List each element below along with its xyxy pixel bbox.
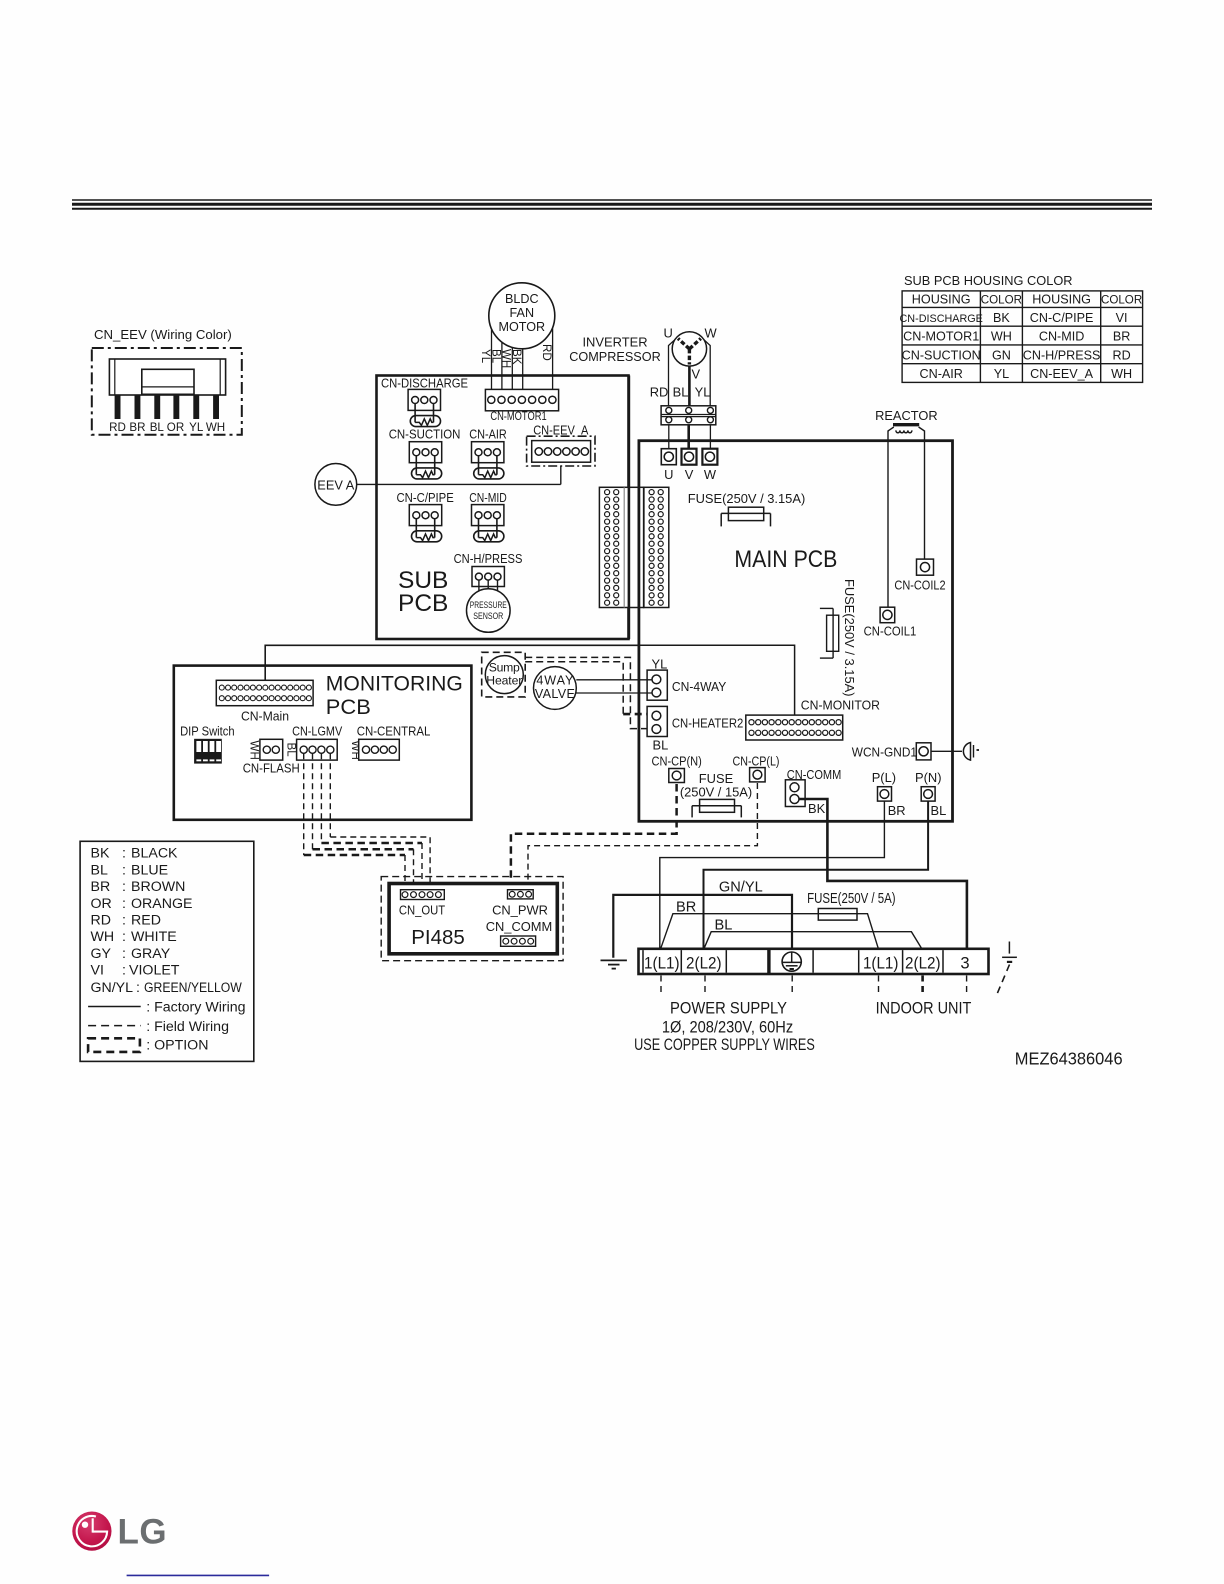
svg-text:VI: VI xyxy=(1116,311,1128,325)
svg-text::: : xyxy=(122,946,126,962)
svg-text:FAN: FAN xyxy=(510,306,535,320)
svg-text:INDOOR UNIT: INDOOR UNIT xyxy=(876,999,972,1018)
svg-text:CN-SUCTION: CN-SUCTION xyxy=(902,348,981,362)
svg-text:CN-DISCHARGE: CN-DISCHARGE xyxy=(381,376,468,391)
svg-text:CN-MONITOR: CN-MONITOR xyxy=(801,698,880,713)
svg-text:CN-H/PRESS: CN-H/PRESS xyxy=(1023,348,1101,362)
svg-text:OR: OR xyxy=(91,896,112,912)
svg-text:CN-HEATER2: CN-HEATER2 xyxy=(672,715,743,730)
svg-text:COMPRESSOR: COMPRESSOR xyxy=(569,349,661,364)
svg-text:W: W xyxy=(705,326,718,341)
svg-text:CN-Main: CN-Main xyxy=(241,709,289,724)
svg-text:BLDC: BLDC xyxy=(505,292,539,306)
svg-text:CN-H/PRESS: CN-H/PRESS xyxy=(454,551,523,566)
svg-text:BL: BL xyxy=(653,738,669,753)
svg-text:FUSE(250V / 3.15A): FUSE(250V / 3.15A) xyxy=(688,491,806,506)
svg-text:CN_OUT: CN_OUT xyxy=(399,903,445,918)
svg-text:1Ø, 208/230V, 60Hz: 1Ø, 208/230V, 60Hz xyxy=(662,1018,793,1037)
svg-text:1(L1): 1(L1) xyxy=(863,953,899,972)
svg-text:FUSE(250V / 5A): FUSE(250V / 5A) xyxy=(807,891,896,907)
svg-text:CN-COIL2: CN-COIL2 xyxy=(894,578,945,593)
svg-text:LG: LG xyxy=(118,1513,168,1552)
svg-text:RD: RD xyxy=(91,913,112,929)
svg-text:COLOR: COLOR xyxy=(1101,294,1142,307)
svg-text:PCB: PCB xyxy=(326,695,371,719)
svg-text:CN-AIR: CN-AIR xyxy=(469,426,507,441)
svg-text:HOUSING: HOUSING xyxy=(912,293,971,307)
svg-text:POWER SUPPLY: POWER SUPPLY xyxy=(670,999,787,1018)
svg-text:WH: WH xyxy=(248,741,261,760)
svg-text:WH: WH xyxy=(91,929,115,945)
svg-text:BR: BR xyxy=(129,421,145,434)
svg-text:2(L2): 2(L2) xyxy=(905,953,941,972)
svg-text:VIOLET: VIOLET xyxy=(129,963,180,979)
svg-text:BL: BL xyxy=(91,862,108,878)
svg-text:CN-EEV_A: CN-EEV_A xyxy=(1030,367,1094,381)
svg-text:CN-FLASH: CN-FLASH xyxy=(243,761,300,776)
svg-text:BL: BL xyxy=(673,385,689,400)
svg-text:CN-AIR: CN-AIR xyxy=(920,367,963,381)
svg-text:SENSOR: SENSOR xyxy=(473,610,503,621)
svg-text:INVERTER: INVERTER xyxy=(582,335,647,350)
svg-text:VI: VI xyxy=(91,963,104,979)
svg-text:MONITORING: MONITORING xyxy=(326,672,463,696)
svg-text:YL: YL xyxy=(189,421,204,434)
svg-text:CN-MID: CN-MID xyxy=(1039,330,1084,344)
svg-text:CN_COMM: CN_COMM xyxy=(486,919,553,934)
svg-text:WH: WH xyxy=(991,330,1012,344)
svg-text:SUB PCB HOUSING COLOR: SUB PCB HOUSING COLOR xyxy=(904,273,1073,288)
svg-text:BL: BL xyxy=(715,917,733,933)
svg-text:ORANGE: ORANGE xyxy=(131,896,193,912)
svg-text:RD: RD xyxy=(109,421,126,434)
svg-text:COLOR: COLOR xyxy=(981,294,1022,307)
svg-text:USE COPPER SUPPLY WIRES: USE COPPER SUPPLY WIRES xyxy=(634,1035,815,1054)
svg-text:PRESSURE: PRESSURE xyxy=(470,599,507,610)
svg-text:BK: BK xyxy=(808,801,826,816)
svg-text::: : xyxy=(122,862,126,878)
svg-text:BK: BK xyxy=(510,349,523,365)
svg-text::: : xyxy=(136,980,140,996)
svg-text:Sump: Sump xyxy=(489,661,520,675)
svg-text:REACTOR: REACTOR xyxy=(875,408,938,423)
svg-text:3: 3 xyxy=(960,953,969,972)
svg-text:MAIN PCB: MAIN PCB xyxy=(734,546,837,573)
svg-text:CN-SUCTION: CN-SUCTION xyxy=(389,426,461,441)
svg-text:CN-4WAY: CN-4WAY xyxy=(672,679,727,694)
svg-text:BK: BK xyxy=(91,846,110,862)
svg-text:P(L): P(L) xyxy=(872,770,896,785)
svg-text:P(N): P(N) xyxy=(915,770,942,785)
svg-text:OR: OR xyxy=(167,421,184,434)
svg-text:CN-CP(L): CN-CP(L) xyxy=(733,754,780,769)
svg-text:: Factory Wiring: : Factory Wiring xyxy=(146,1000,245,1016)
svg-text:EEV A: EEV A xyxy=(317,477,354,492)
svg-text:GN: GN xyxy=(992,348,1011,362)
svg-text:RD: RD xyxy=(540,344,553,361)
svg-text:V: V xyxy=(685,467,694,482)
svg-text:GRAY: GRAY xyxy=(131,946,171,962)
svg-text:BL: BL xyxy=(284,743,297,758)
svg-text:FUSE(250V / 3.15A): FUSE(250V / 3.15A) xyxy=(842,579,857,697)
svg-text:4WAY: 4WAY xyxy=(536,674,574,688)
svg-text:BLUE: BLUE xyxy=(131,862,168,878)
svg-text:BK: BK xyxy=(993,311,1010,325)
svg-text:YL: YL xyxy=(652,657,668,672)
svg-text:DIP Switch: DIP Switch xyxy=(180,724,235,739)
svg-text:W: W xyxy=(704,467,717,482)
svg-text:GY: GY xyxy=(91,946,112,962)
svg-text:MOTOR: MOTOR xyxy=(498,320,545,334)
svg-text::: : xyxy=(122,963,126,979)
svg-text:YL: YL xyxy=(695,385,711,400)
svg-text:MEZ64386046: MEZ64386046 xyxy=(1015,1049,1123,1069)
svg-text:GN/YL: GN/YL xyxy=(719,879,763,895)
svg-text:RD: RD xyxy=(1112,348,1130,362)
svg-text::: : xyxy=(122,929,126,945)
svg-text:BR: BR xyxy=(91,879,111,895)
svg-text:BLACK: BLACK xyxy=(131,846,178,862)
svg-text:WHITE: WHITE xyxy=(131,929,177,945)
svg-text:CN-DISCHARGE: CN-DISCHARGE xyxy=(900,313,983,325)
svg-text:BL: BL xyxy=(931,803,947,818)
svg-text:GN/YL: GN/YL xyxy=(91,980,134,996)
svg-text:YL: YL xyxy=(994,367,1009,381)
svg-text:V: V xyxy=(692,367,701,382)
svg-text:VALVE: VALVE xyxy=(535,687,575,701)
svg-text::: : xyxy=(122,896,126,912)
svg-text:CN-EEV_A: CN-EEV_A xyxy=(533,423,589,438)
svg-text:RD: RD xyxy=(650,385,669,400)
svg-text:: Field Wiring: : Field Wiring xyxy=(146,1019,229,1035)
svg-text::: : xyxy=(122,846,126,862)
svg-text:1(L1): 1(L1) xyxy=(644,953,680,972)
svg-text:CN_PWR: CN_PWR xyxy=(492,903,548,918)
svg-text:CN_EEV (Wiring Color): CN_EEV (Wiring Color) xyxy=(94,327,232,342)
svg-text:(250V / 15A): (250V / 15A) xyxy=(680,785,752,800)
svg-text:Heater: Heater xyxy=(486,674,522,688)
svg-text:CN-C/PIPE: CN-C/PIPE xyxy=(397,490,455,505)
svg-text:CN-LGMV: CN-LGMV xyxy=(292,724,342,739)
svg-text:BL: BL xyxy=(150,421,165,434)
svg-text:CN-MOTOR1: CN-MOTOR1 xyxy=(903,330,979,344)
svg-text:WCN-GND1: WCN-GND1 xyxy=(852,745,917,760)
svg-text:BR: BR xyxy=(888,803,906,818)
svg-text:PI485: PI485 xyxy=(411,926,465,949)
svg-text:BROWN: BROWN xyxy=(131,879,185,895)
svg-text:CN-COIL1: CN-COIL1 xyxy=(864,624,917,639)
svg-text:BR: BR xyxy=(1113,330,1131,344)
svg-text:PCB: PCB xyxy=(398,590,448,617)
svg-text:CN-CENTRAL: CN-CENTRAL xyxy=(357,724,431,739)
svg-text:WH: WH xyxy=(206,421,225,434)
svg-text::: : xyxy=(122,913,126,929)
svg-text:WH: WH xyxy=(1111,367,1132,381)
svg-text:RED: RED xyxy=(131,913,161,929)
svg-text:U: U xyxy=(664,326,673,341)
svg-text:: OPTION: : OPTION xyxy=(146,1037,208,1053)
svg-text:HOUSING: HOUSING xyxy=(1032,293,1091,307)
svg-text:CN-C/PIPE: CN-C/PIPE xyxy=(1030,311,1094,325)
svg-text:CN-MID: CN-MID xyxy=(469,490,507,505)
svg-text:2(L2): 2(L2) xyxy=(686,953,722,972)
svg-text:CN-MOTOR1: CN-MOTOR1 xyxy=(490,409,546,423)
svg-text:U: U xyxy=(664,467,673,482)
svg-text:GREEN/YELLOW: GREEN/YELLOW xyxy=(144,980,242,996)
svg-text::: : xyxy=(122,879,126,895)
svg-text:CN-CP(N): CN-CP(N) xyxy=(652,754,702,769)
